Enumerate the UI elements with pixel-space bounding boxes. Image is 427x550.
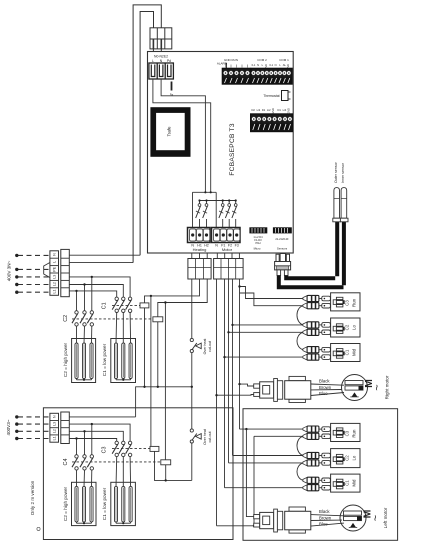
svg-text:Mid: Mid bbox=[352, 479, 357, 487]
svg-text:L/2: L/2 bbox=[267, 108, 271, 112]
svg-text:N: N bbox=[215, 244, 218, 248]
svg-text:Blue: Blue bbox=[319, 391, 328, 396]
svg-text:L1: L1 bbox=[52, 290, 56, 294]
svg-text:21-212/12F: 21-212/12F bbox=[275, 237, 289, 241]
svg-text:400V 3N~: 400V 3N~ bbox=[7, 260, 12, 281]
svg-text:L3: L3 bbox=[53, 422, 57, 426]
svg-text:Over heat: Over heat bbox=[203, 429, 207, 445]
svg-text:C3: C3 bbox=[345, 300, 350, 306]
svg-text:Lo: Lo bbox=[352, 455, 357, 460]
svg-text:Black: Black bbox=[319, 509, 330, 514]
svg-text:FCBASEPCB T3: FCBASEPCB T3 bbox=[229, 123, 236, 175]
svg-text:Outer sensor: Outer sensor bbox=[334, 161, 338, 183]
svg-text:Left motor: Left motor bbox=[383, 507, 388, 528]
svg-text:Thermostat: Thermostat bbox=[263, 94, 279, 98]
svg-text:Mid: Mid bbox=[352, 348, 357, 356]
svg-text:cut-out: cut-out bbox=[208, 341, 212, 352]
svg-text:Black: Black bbox=[319, 379, 330, 384]
svg-text:Run: Run bbox=[352, 298, 357, 307]
svg-text:Over heat: Over heat bbox=[203, 339, 207, 355]
svg-text:Micro: Micro bbox=[254, 247, 261, 251]
svg-text:Motor: Motor bbox=[222, 247, 233, 252]
svg-text:N: N bbox=[275, 63, 277, 67]
svg-text:C2: C2 bbox=[345, 324, 350, 330]
svg-text:F3: F3 bbox=[235, 244, 239, 248]
svg-text:C2 = high power: C2 = high power bbox=[63, 486, 68, 521]
svg-text:C1: C1 bbox=[101, 302, 107, 309]
svg-text:400V3~: 400V3~ bbox=[6, 419, 11, 435]
svg-text:N: N bbox=[257, 63, 259, 67]
svg-text:C1: C1 bbox=[345, 349, 350, 355]
svg-text:cut-out: cut-out bbox=[208, 432, 212, 443]
svg-text:C2 = high power: C2 = high power bbox=[63, 342, 68, 377]
svg-text:Blue: Blue bbox=[319, 522, 328, 527]
svg-text:L/4: L/4 bbox=[283, 108, 287, 112]
svg-text:PE: PE bbox=[53, 266, 57, 271]
svg-text:Right motor: Right motor bbox=[385, 375, 390, 399]
svg-text:Sensors: Sensors bbox=[277, 247, 288, 251]
svg-text:Lo: Lo bbox=[352, 325, 357, 330]
svg-text:N0-N2E2: N0-N2E2 bbox=[154, 55, 168, 59]
svg-text:PbH: PbH bbox=[255, 241, 260, 245]
svg-text:C1: C1 bbox=[345, 480, 350, 486]
svg-text:Tsafe: Tsafe bbox=[166, 126, 171, 137]
svg-text:D1: D1 bbox=[262, 108, 266, 112]
svg-text:COM 2: COM 2 bbox=[257, 58, 267, 62]
svg-text:GND: GND bbox=[287, 108, 291, 114]
svg-text:Only 2 m version: Only 2 m version bbox=[30, 480, 35, 515]
svg-text:COM 1: COM 1 bbox=[279, 58, 289, 62]
svg-text:L2: L2 bbox=[52, 282, 56, 286]
svg-text:C1 = low power: C1 = low power bbox=[102, 487, 107, 520]
svg-text:Brown: Brown bbox=[319, 385, 332, 390]
svg-text:Run: Run bbox=[352, 429, 357, 438]
svg-text:Inner sensor: Inner sensor bbox=[341, 162, 345, 183]
svg-text:~: ~ bbox=[372, 384, 384, 390]
svg-text:L: L bbox=[53, 261, 57, 263]
svg-text:Brown: Brown bbox=[319, 515, 332, 520]
svg-text:C1 = low power: C1 = low power bbox=[102, 343, 107, 376]
svg-text:GND: GND bbox=[271, 108, 275, 114]
svg-text:D2: D2 bbox=[252, 108, 256, 112]
svg-text:C3: C3 bbox=[101, 446, 107, 453]
svg-text:L1: L1 bbox=[53, 436, 57, 440]
svg-text:C3: C3 bbox=[345, 430, 350, 436]
svg-text:5x: 5x bbox=[170, 93, 174, 97]
svg-text:C4: C4 bbox=[63, 459, 69, 466]
svg-text:0-1: 0-1 bbox=[252, 63, 256, 67]
svg-text:N: N bbox=[52, 415, 56, 418]
svg-text:D1: D1 bbox=[278, 108, 282, 112]
svg-text:C2: C2 bbox=[345, 455, 350, 461]
svg-text:0-1: 0-1 bbox=[269, 63, 273, 67]
svg-text:Heating: Heating bbox=[193, 247, 207, 252]
svg-text:~: ~ bbox=[370, 515, 382, 521]
svg-text:C2: C2 bbox=[63, 315, 69, 322]
svg-text:L3: L3 bbox=[52, 275, 56, 279]
svg-text:N: N bbox=[53, 253, 57, 256]
svg-text:L2: L2 bbox=[52, 429, 56, 433]
svg-text:L/2: L/2 bbox=[257, 108, 261, 112]
